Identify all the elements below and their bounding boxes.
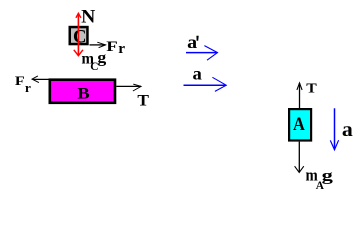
svg-text:a: a bbox=[193, 64, 202, 84]
block C bbox=[70, 27, 88, 44]
svg-text:N: N bbox=[81, 6, 95, 27]
acceleration arrow a (blue, down, next to A) bbox=[330, 108, 338, 150]
svg-text:F: F bbox=[15, 73, 25, 88]
normal/weight double arrow (red) through block C bbox=[74, 13, 83, 55]
svg-text:A: A bbox=[293, 114, 305, 135]
weight arrow mAg on A (black, down) bbox=[295, 142, 304, 173]
svg-text:a: a bbox=[342, 120, 353, 141]
svg-text:F: F bbox=[106, 39, 118, 55]
acceleration arrow a' (blue, right) bbox=[186, 46, 218, 61]
svg-text:g: g bbox=[97, 50, 106, 67]
svg-text:T: T bbox=[306, 80, 317, 95]
svg-text:B: B bbox=[77, 86, 90, 103]
svg-text:a: a bbox=[187, 32, 197, 52]
apostrophe of a-prime bbox=[196, 36, 198, 41]
acceleration arrow a (blue, right) bbox=[184, 77, 227, 91]
svg-text:r: r bbox=[118, 41, 125, 57]
svg-text:g: g bbox=[322, 168, 333, 185]
friction force arrow Fr on B (black, left) bbox=[32, 76, 49, 83]
block B bbox=[50, 80, 115, 103]
friction force arrow Fr on C (black, right) bbox=[90, 42, 106, 48]
tension arrow T on B (black, right) bbox=[116, 84, 141, 91]
svg-text:r: r bbox=[25, 80, 31, 95]
block A bbox=[289, 109, 311, 140]
svg-text:C: C bbox=[73, 27, 87, 48]
svg-text:T: T bbox=[137, 92, 149, 109]
tension arrow T on A (black, up) bbox=[297, 83, 302, 108]
